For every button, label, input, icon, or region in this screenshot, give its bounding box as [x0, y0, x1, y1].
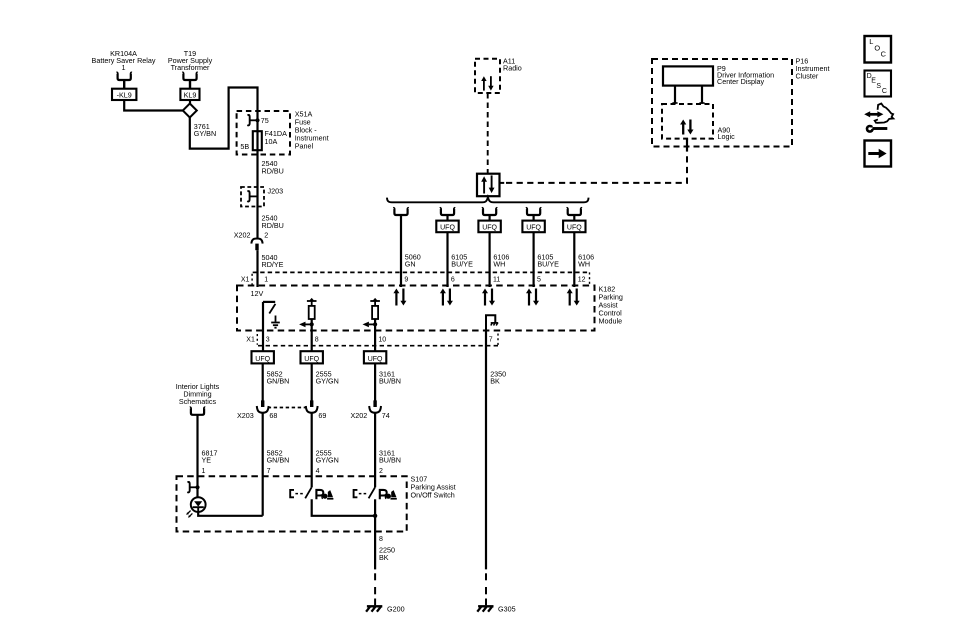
wire KL9 to splice: [189, 100, 191, 104]
dashed serial wire A11 to gateway: [487, 93, 489, 174]
svg-text:11: 11: [493, 277, 500, 284]
svg-text:BK: BK: [490, 377, 500, 386]
svg-text:GY/BN: GY/BN: [194, 129, 216, 138]
wire UFQ to module pin 11: [489, 232, 491, 287]
wire UFQ to module pin 5: [532, 232, 534, 287]
label pin 75: [261, 116, 269, 125]
svg-text:WH: WH: [578, 259, 590, 268]
svg-text:Logic: Logic: [718, 132, 736, 141]
connector socket arc 1: [257, 406, 269, 413]
wire UFQ lower 1 down: [262, 363, 264, 400]
svg-text:X202: X202: [351, 411, 368, 420]
serial arrows in module at x447: [440, 289, 453, 306]
svg-text:S: S: [876, 83, 881, 90]
pin 9 label: [404, 277, 408, 284]
svg-text:RD/BU: RD/BU: [262, 221, 284, 230]
wire 6817 YE: [196, 415, 198, 497]
wire 3761 from splice to fuse block: [190, 88, 258, 149]
label 6105 BU/YE pin 6: [451, 252, 473, 268]
label 2350 BK: [490, 369, 506, 385]
off-page cup bus drop 2: [440, 208, 455, 215]
label P16 Instrument Cluster: [796, 57, 830, 81]
label 6106 WH pin 11: [493, 252, 509, 268]
icon LOC box: [865, 36, 892, 63]
svg-text:BU/BN: BU/BN: [379, 456, 401, 465]
lamp LED circle: [191, 497, 206, 512]
svg-text:L: L: [869, 37, 873, 46]
svg-text:Center Display: Center Display: [717, 77, 765, 86]
serial arrows in module at x401: [393, 289, 406, 306]
wire UFQ to module pin 6: [446, 232, 448, 287]
switch A output wire: [312, 499, 375, 516]
svg-text:68: 68: [269, 411, 277, 420]
lamp LED triangle: [193, 501, 204, 512]
svg-text:X1: X1: [246, 337, 255, 344]
pin 4 label S107: [316, 468, 320, 475]
svg-text:G200: G200: [387, 605, 405, 614]
icon DESC box: [865, 71, 892, 97]
connector row X1 top dashed line: [252, 272, 589, 285]
connector UFQ lower 2: [301, 351, 323, 363]
label pin 2 of X202: [264, 231, 268, 240]
off-page cup bus drop 4: [526, 208, 541, 215]
svg-text:KL9: KL9: [184, 90, 197, 99]
ground G305: [477, 606, 493, 611]
pin 8 label: [315, 337, 319, 344]
label 5B: [240, 142, 249, 151]
label X1 bottom: [246, 337, 255, 344]
wire 5040 RD/YE: [256, 250, 258, 287]
relay KR104A label: [92, 49, 156, 72]
wire UFQ lower 2 down: [311, 363, 313, 400]
display P9 box: [663, 66, 713, 85]
connector UFQ bus 4: [522, 221, 544, 233]
svg-text:UFQ: UFQ: [567, 225, 582, 232]
svg-text:UFQ: UFQ: [440, 225, 455, 232]
pin 1 label: [264, 277, 268, 284]
connector UFQ bus 2: [436, 221, 458, 233]
svg-text:7: 7: [267, 468, 271, 475]
svg-text:1: 1: [202, 468, 206, 475]
label J203: [268, 187, 284, 196]
serial data arrows in gateway: [481, 175, 494, 193]
svg-text:BU/BN: BU/BN: [379, 377, 401, 386]
lamp emission arrows: [186, 511, 192, 518]
pin 10 label: [378, 337, 386, 344]
label 2250 BK: [379, 546, 395, 562]
label K182 Parking Assist Control Module: [599, 284, 623, 325]
serial arrows in module at x533: [526, 289, 539, 306]
wire 3161 to S107: [374, 413, 376, 487]
label S107 Parking Assist On/Off Switch: [411, 474, 456, 499]
connector UFQ bus 5: [563, 221, 585, 233]
label X202 lower: [351, 411, 368, 420]
internal switch wire pin 3: [263, 302, 275, 352]
connector socket arc 2: [306, 406, 318, 413]
off-page cup bus drop 3: [482, 208, 497, 215]
dashed wire to G305: [485, 573, 487, 605]
dashed wire to G200: [374, 573, 376, 605]
wire lamp to pin7 node: [198, 512, 263, 516]
switch B output wire: [374, 499, 376, 531]
svg-text:J203: J203: [268, 187, 284, 196]
wire 5060 GN: [400, 215, 402, 287]
svg-text:74: 74: [382, 411, 390, 420]
icon wrench: [866, 123, 888, 133]
label 5040 RD/YE: [262, 253, 284, 269]
wire cup to UFQ 3: [489, 215, 491, 221]
internal resistor top bar x375: [370, 298, 380, 302]
label 2540 RD/BU upper: [262, 159, 284, 175]
svg-text:X203: X203: [237, 411, 254, 420]
label X203: [237, 411, 254, 420]
svg-text:C: C: [881, 50, 887, 59]
svg-text:Cluster: Cluster: [796, 71, 819, 80]
dashed link X203 68-69: [268, 407, 307, 409]
wire 5852 to S107: [262, 413, 264, 516]
label X202: [234, 231, 251, 240]
transformer T19 label: [168, 49, 213, 72]
fuse block X51A dashed box: [237, 111, 290, 155]
interior lights dimming label: [176, 382, 220, 406]
svg-text:5: 5: [537, 277, 541, 284]
wire P9 right leg: [699, 86, 704, 104]
label 3761 GY/BN: [194, 122, 216, 138]
switch B actuator bracket: [354, 490, 358, 497]
connector J203 dashed box: [241, 187, 264, 207]
svg-text:RD/YE: RD/YE: [262, 260, 284, 269]
label pin 74: [382, 411, 390, 420]
label X1 top: [241, 276, 250, 283]
label 3161 BU/BN upper: [379, 369, 401, 385]
pin 7 label S107: [267, 468, 271, 475]
internal ground pin 3: [271, 316, 280, 328]
svg-text:8: 8: [315, 337, 319, 344]
svg-text:UFQ: UFQ: [482, 225, 497, 232]
svg-text:75: 75: [261, 116, 269, 125]
internal wire pin 7: [486, 315, 495, 330]
svg-text:X1: X1: [241, 276, 250, 283]
label 3161 BU/BN lower: [379, 448, 401, 464]
connector row X1 bottom dashed line: [257, 334, 498, 346]
svg-text:UFQ: UFQ: [304, 356, 319, 363]
label F41DA 10A: [265, 129, 288, 146]
label 6105 BU/YE pin 5: [537, 252, 559, 268]
off-page cup interior lights: [190, 407, 205, 414]
wire UFQ lower 3 down: [374, 363, 376, 400]
svg-text:GY/GN: GY/GN: [316, 377, 339, 386]
dashed serial wire gateway to cluster: [506, 152, 687, 183]
svg-text:WH: WH: [493, 259, 505, 268]
connector X202 pin 2 terminal bar: [255, 244, 258, 251]
svg-text:6: 6: [451, 277, 455, 284]
svg-text:GY/GN: GY/GN: [316, 456, 339, 465]
label G305: [498, 605, 516, 614]
svg-text:UFQ: UFQ: [368, 356, 383, 363]
internal resistor x311: [309, 301, 315, 352]
terminal box -KL9: [112, 89, 136, 100]
connector terminal bar 2: [310, 400, 313, 407]
svg-text:Schematics: Schematics: [179, 397, 217, 406]
svg-text:12V: 12V: [251, 289, 264, 298]
svg-text:UFQ: UFQ: [255, 356, 270, 363]
label 12V: [251, 289, 264, 298]
label G200: [387, 605, 405, 614]
connector UFQ lower 3: [364, 351, 386, 363]
svg-text:1: 1: [264, 277, 268, 284]
label 5852 GN/BN lower: [267, 448, 290, 464]
terminal box KL9: [180, 89, 199, 100]
svg-text:8: 8: [379, 536, 383, 543]
switch A actuator bracket: [290, 490, 294, 497]
serial data arrows in A11: [481, 76, 493, 90]
logic A90 dashed box: [662, 104, 713, 139]
off-page connector cup T19: [182, 73, 197, 80]
bus brace: [387, 197, 589, 202]
svg-text:YE: YE: [202, 456, 212, 465]
switch A actuator dashes: [295, 493, 304, 495]
svg-text:10: 10: [378, 337, 386, 344]
svg-text:12: 12: [578, 277, 586, 284]
ground G200: [366, 606, 382, 611]
internal switch blade: [269, 304, 275, 314]
svg-text:G305: G305: [498, 605, 516, 614]
wire cup to UFQ 4: [532, 215, 534, 221]
connector terminal bar 1: [261, 400, 264, 407]
svg-text:X202: X202: [234, 231, 251, 240]
label 5060 GN pin 9: [405, 252, 421, 268]
wire into fuse: [256, 111, 258, 187]
serial arrows in module at x489: [482, 289, 495, 306]
serial stub at gateway: [500, 182, 505, 184]
icon connector outline: [875, 104, 894, 123]
splice diamond: [183, 104, 197, 118]
svg-text:5B: 5B: [240, 142, 249, 151]
pin 5 label: [537, 277, 541, 284]
internal tap junction x375: [373, 322, 377, 326]
module K182 dashed box: [237, 286, 595, 331]
svg-text:2: 2: [379, 468, 383, 475]
label pin 69: [318, 411, 326, 420]
svg-text:2: 2: [264, 231, 268, 240]
svg-text:BU/YE: BU/YE: [537, 259, 559, 268]
internal tap arrow x375: [363, 322, 376, 328]
wire 2250 BK: [374, 532, 376, 570]
parking icon B: [380, 490, 397, 500]
label P9 Driver Information Center Display: [717, 64, 774, 86]
svg-text:GN/BN: GN/BN: [267, 377, 290, 386]
pin 8 label S107: [379, 536, 383, 543]
switch A blade: [305, 487, 312, 498]
label pin 68: [269, 411, 277, 420]
pin 2 label S107: [379, 468, 383, 475]
wire 2350 BK: [485, 331, 487, 570]
icon go box: [865, 141, 892, 167]
wire 2555 to S107: [311, 413, 313, 487]
label 5852 GN/BN upper: [267, 369, 290, 385]
switch B blade: [369, 487, 376, 498]
wire cup to UFQ 5: [573, 215, 575, 221]
svg-text:BU/YE: BU/YE: [451, 259, 473, 268]
pin 3 label: [266, 337, 270, 344]
svg-text:RD/BU: RD/BU: [262, 166, 284, 175]
svg-text:1: 1: [122, 63, 126, 72]
internal resistor top bar x311: [307, 298, 317, 302]
instrument cluster P16 dashed box: [652, 59, 792, 147]
serial data gateway box: [477, 174, 500, 197]
serial data arrows in A90: [680, 120, 693, 135]
icon connector repair arrow: [864, 111, 883, 117]
off-page cup bus drop 1: [393, 208, 408, 215]
wire P9 left leg: [672, 86, 677, 104]
wire cup to UFQ 2: [446, 215, 448, 221]
pin 12 label: [578, 277, 586, 284]
connector UFQ bus 3: [478, 221, 500, 233]
switch S107 dashed box: [177, 476, 407, 531]
pin 6 label: [451, 277, 455, 284]
connector UFQ lower 1: [252, 351, 274, 363]
fuse F41DA 10A: [253, 131, 262, 150]
svg-text:Transformer: Transformer: [171, 63, 210, 72]
internal tap junction x311: [310, 322, 314, 326]
svg-text:GN/BN: GN/BN: [267, 456, 290, 465]
pin 7 label: [489, 337, 493, 344]
terminal J203: [247, 191, 257, 201]
off-page connector cup KR104A: [117, 73, 132, 80]
svg-text:On/Off Switch: On/Off Switch: [411, 490, 455, 499]
junction dot switches: [373, 514, 377, 518]
svg-text:69: 69: [318, 411, 326, 420]
label 6106 WH pin 12: [578, 252, 594, 268]
svg-text:BK: BK: [379, 553, 389, 562]
connector terminal bar 3: [373, 400, 376, 407]
svg-text:GN: GN: [405, 259, 416, 268]
pin 11 label: [493, 277, 500, 284]
label 6817 YE: [202, 448, 218, 464]
svg-text:3: 3: [266, 337, 270, 344]
terminal 75: [247, 115, 259, 125]
svg-text:4: 4: [316, 468, 320, 475]
terminal hook lamp: [187, 482, 199, 492]
svg-text:UFQ: UFQ: [526, 225, 541, 232]
internal tap arrow x311: [299, 322, 312, 328]
label 2555 GY/GN upper: [316, 369, 339, 385]
svg-text:7: 7: [489, 337, 493, 344]
svg-text:Panel: Panel: [295, 141, 314, 150]
wire KR104A cup to -KL9: [123, 80, 125, 89]
radio A11 dashed box: [475, 59, 500, 93]
svg-text:10A: 10A: [265, 137, 278, 146]
parking icon A: [316, 490, 333, 500]
svg-text:Module: Module: [599, 316, 623, 325]
svg-text:-KL9: -KL9: [117, 90, 132, 99]
label X51A Fuse Block - Instrument Panel: [295, 109, 329, 150]
wire T19 cup to KL9: [189, 80, 191, 89]
pin 1 label S107: [202, 468, 206, 475]
switch B actuator dashes: [359, 493, 368, 495]
wire -KL9 to splice: [124, 100, 182, 111]
svg-text:Radio: Radio: [503, 64, 522, 73]
wire J203 to X202: [256, 187, 258, 239]
wire UFQ to module pin 12: [573, 232, 575, 287]
svg-text:O: O: [874, 44, 880, 53]
connector X202 pin 2 socket arc: [251, 239, 262, 244]
svg-text:C: C: [882, 88, 887, 95]
label 2540 RD/BU lower: [262, 214, 284, 230]
label A11 Radio: [503, 56, 522, 72]
off-page cup bus drop 5: [567, 208, 582, 215]
serial arrows in module at x574: [567, 289, 580, 306]
internal resistor x375: [372, 301, 378, 352]
pin stub A90 to cluster edge: [686, 139, 688, 152]
label 2555 GY/GN lower: [316, 448, 339, 464]
svg-text:9: 9: [404, 277, 408, 284]
internal mini ground pin 7: [491, 323, 499, 326]
label A90 Logic: [718, 125, 736, 141]
connector socket arc 3: [369, 406, 381, 413]
